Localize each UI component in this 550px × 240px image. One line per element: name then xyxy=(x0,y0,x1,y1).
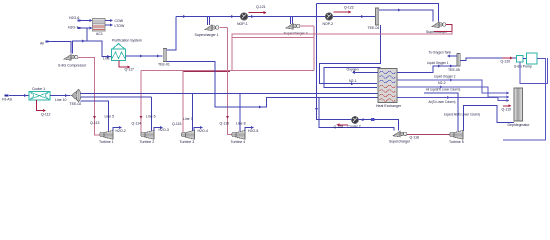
stream COW out of AC1 xyxy=(105,20,111,22)
svg-text:H2O-2: H2O-2 xyxy=(116,129,126,133)
energy wire Q-114 to Turbine 2 xyxy=(140,71,143,135)
node recycle marker xyxy=(371,118,374,121)
energy wire header turbines 2-3 to Supercharger 2 xyxy=(141,70,314,72)
svg-text:Expand Air(To Lower Column): Expand Air(To Lower Column) xyxy=(444,112,480,116)
heat exchanger Heat Exchanger xyxy=(378,69,397,103)
wire TEE-02 outlet 2 xyxy=(81,96,152,98)
wire AC1 drain joining compressor discharge xyxy=(86,29,88,42)
energy wire Q-121 from NOP-1 xyxy=(249,12,265,14)
svg-text:N2-1: N2-1 xyxy=(349,79,357,83)
svg-text:Turbine 4: Turbine 4 xyxy=(231,140,246,144)
svg-text:Turbine 1: Turbine 1 xyxy=(99,140,114,144)
svg-text:N2-2: N2-2 xyxy=(438,81,446,85)
svg-text:Q-113: Q-113 xyxy=(90,121,100,125)
svg-text:Turbine 3: Turbine 3 xyxy=(180,140,195,144)
svg-text:Q-122: Q-122 xyxy=(344,5,354,9)
svg-text:Q-118: Q-118 xyxy=(410,135,420,139)
wire second branch to Heat Exchanger xyxy=(324,68,381,88)
turbine Turbine 2 xyxy=(141,132,146,137)
svg-text:LTOW: LTOW xyxy=(115,24,125,28)
energy wire Q-117 from Purification System xyxy=(119,61,128,68)
wire TEE-01 top outlet riser to main header xyxy=(167,17,176,51)
energy wire Q-118 Supercharger 3 to Turbine 5 xyxy=(407,134,451,136)
svg-text:To Oxygen Tank: To Oxygen Tank xyxy=(429,50,452,54)
wire feed down to Supercharger 3 xyxy=(319,98,394,131)
svg-text:Dephlegmator: Dephlegmator xyxy=(508,123,531,127)
splitter TEE-04 xyxy=(376,8,379,25)
energy wire Q-128 arrow xyxy=(338,124,348,126)
wire TEE-04 top outlet to Supercharger top-right xyxy=(379,10,433,22)
svg-text:S-8S Pump: S-8S Pump xyxy=(514,64,532,68)
energy wire Q-122 from NOP-2 xyxy=(334,11,350,13)
wire Heat Exchanger outlet to lower column xyxy=(397,98,507,101)
svg-text:TEE-05: TEE-05 xyxy=(448,68,460,72)
svg-text:NOP-1: NOP-1 xyxy=(237,22,248,26)
wire pump recycle bracket xyxy=(520,58,548,84)
cooler Cooler 1 xyxy=(29,91,50,100)
energy wire riser to Supercharger 2 xyxy=(313,26,315,71)
compressor Supercharger (top right) xyxy=(432,22,439,28)
air-cooler exchanger AC1 xyxy=(93,19,106,32)
svg-text:TEE-04: TEE-04 xyxy=(368,26,380,30)
svg-text:H2O-6: H2O-6 xyxy=(69,16,79,20)
svg-text:COW: COW xyxy=(115,19,124,23)
wire drop to Supercharger 1 xyxy=(206,17,208,26)
energy wire Supercharger loop xyxy=(434,25,452,32)
wire Cooler 2 inlet from Supercharger 3 side xyxy=(358,120,398,131)
svg-text:Q-114: Q-114 xyxy=(132,122,142,126)
turbine Turbine 3 xyxy=(181,132,186,137)
svg-text:Air Liquid(To Lower Column): Air Liquid(To Lower Column) xyxy=(426,87,460,91)
stream Air Liquid To Lower Column xyxy=(424,93,458,131)
stream To Oxygen Tank xyxy=(450,55,458,57)
turbine Turbine 4 xyxy=(232,132,237,137)
stream Line 8 to Turbine 4 xyxy=(239,94,241,132)
wire main compression header xyxy=(176,16,376,18)
wire purification outlet to TEE-01 xyxy=(126,55,163,57)
compressor S-8G Compressor xyxy=(64,55,71,61)
stream Line 5 to Turbine 1 xyxy=(81,101,109,131)
stream H2O-4 out of Turbine 3 xyxy=(194,128,201,131)
svg-text:S-8G Compressor: S-8G Compressor xyxy=(58,63,87,67)
splitter TEE-02 cone xyxy=(72,90,79,102)
svg-text:H2O-3: H2O-3 xyxy=(159,128,169,132)
svg-text:Liquid Oxygen 1: Liquid Oxygen 1 xyxy=(427,61,449,65)
stream Line 6 to Turbine 2 xyxy=(151,97,153,131)
stream Line 7 to Turbine 3 xyxy=(192,94,194,132)
unit Purification System xyxy=(112,49,126,61)
svg-text:Line 6: Line 6 xyxy=(146,114,156,118)
pump S-8S Pump xyxy=(527,53,538,64)
svg-text:Supercharger 1: Supercharger 1 xyxy=(195,33,219,37)
energy wire loop rail lower xyxy=(232,37,314,39)
svg-text:Q-119: Q-119 xyxy=(502,107,512,111)
energy wire Q-120 xyxy=(502,57,511,59)
wire TEE-02 outlet 1 long header to Heat Exchanger xyxy=(81,93,379,95)
svg-text:Line 5: Line 5 xyxy=(105,114,115,118)
energy wire Q-119 to Dephlegmator xyxy=(503,105,509,107)
stream H2O-5 out of Turbine 4 xyxy=(245,128,252,131)
stream Liquid Oxygen 2 path xyxy=(398,80,508,93)
compressor Supercharger 2 xyxy=(286,24,293,30)
energy wire Supercharger 1 shaft xyxy=(220,27,228,29)
energy wire Q-113 from S-8G Compressor to Turbine 1 xyxy=(78,57,101,135)
stream H2O-7 into AC1 xyxy=(79,27,93,29)
svg-text:Line 8: Line 8 xyxy=(236,121,246,125)
svg-text:Liquid Oxygen 2: Liquid Oxygen 2 xyxy=(434,74,456,78)
cooler Cooler 2 xyxy=(352,117,359,124)
wire drop to Supercharger 2 xyxy=(289,17,291,25)
stream H2O-3 out of Turbine 2 xyxy=(154,128,161,131)
turbine Turbine 5 xyxy=(450,132,455,137)
stream N2-2 path xyxy=(397,87,507,97)
wire Cooler 2 outlet up to top bypass header xyxy=(317,4,353,120)
stream Line 10 to TEE-02 xyxy=(50,95,71,97)
energy wire Q-116 Supercharger 1 to Turbine 4 xyxy=(228,28,233,135)
energy wire dark red header xyxy=(183,70,230,72)
svg-text:H2O-7: H2O-7 xyxy=(68,26,78,30)
wire TEE-01 bottom outlet long path to Heat Exchanger xyxy=(167,62,378,108)
svg-text:H2O-4: H2O-4 xyxy=(198,129,208,133)
svg-text:Fd-AS: Fd-AS xyxy=(2,97,13,101)
svg-text:Supercharger: Supercharger xyxy=(389,140,411,144)
svg-text:Cooler 2: Cooler 2 xyxy=(348,124,361,128)
column Dephlegmator xyxy=(514,88,523,121)
svg-text:Air(To Lower Column): Air(To Lower Column) xyxy=(429,100,456,104)
svg-text:Purification System: Purification System xyxy=(112,39,142,43)
svg-text:Cooler 1: Cooler 1 xyxy=(32,87,45,91)
wire S-8S Pump outlet down right side xyxy=(503,59,546,141)
svg-text:Turbine 5: Turbine 5 xyxy=(449,140,464,144)
svg-text:TEE-02: TEE-02 xyxy=(70,102,82,106)
stream Fd-AS inlet xyxy=(9,95,29,97)
energy wire Q-115 to Turbine 3 xyxy=(182,71,184,133)
compressor Supercharger 1 xyxy=(205,25,212,31)
stream LTOW out of AC1 xyxy=(105,24,111,26)
energy wire Q-112 from Cooler 1 xyxy=(37,100,44,111)
valve S-8S Pump inlet block xyxy=(517,56,524,63)
svg-text:Turbine 2: Turbine 2 xyxy=(140,140,155,144)
turbine Turbine 1 xyxy=(100,132,105,137)
svg-text:Line 7: Line 7 xyxy=(183,117,193,121)
svg-text:H2O-5: H2O-5 xyxy=(248,129,258,133)
svg-text:Q-121: Q-121 xyxy=(256,5,266,9)
stream Expand Air To Lower Column xyxy=(464,106,515,132)
splitter TEE-01 xyxy=(163,49,166,62)
svg-text:Line 10: Line 10 xyxy=(55,98,67,102)
stream Line 9 compressor discharge to purification xyxy=(73,41,112,57)
svg-text:Q-112: Q-112 xyxy=(41,113,51,117)
svg-text:Supercharger 2: Supercharger 2 xyxy=(284,31,308,35)
stream Oxygen out of Heat Exchanger xyxy=(355,71,379,73)
svg-text:Q-128: Q-128 xyxy=(334,125,344,129)
energy wire Supercharger 2 shaft to riser xyxy=(300,25,314,27)
wire connector xyxy=(523,58,527,60)
stream H2O-6 into AC1 xyxy=(79,20,93,22)
splitter TEE-05 xyxy=(457,54,460,67)
wire TEE-04 bottom outlet to Heat Exchanger N2-1 port xyxy=(320,25,381,84)
wire Heat Exchanger to Liquid Oxygen 1 riser xyxy=(397,66,457,72)
svg-text:Q-117: Q-117 xyxy=(125,68,135,72)
wire bypass top header to Supercharger top-right xyxy=(317,4,439,22)
stream H2O-2 out of Turbine 1 xyxy=(113,128,120,131)
svg-text:Q-120: Q-120 xyxy=(501,60,511,64)
svg-text:Q-115: Q-115 xyxy=(172,122,182,126)
pump NOP-1 xyxy=(240,13,247,20)
svg-text:Q-116: Q-116 xyxy=(220,122,230,126)
energy wire loop rail upper xyxy=(232,32,452,71)
compressor Supercharger 3 xyxy=(393,131,400,137)
pump NOP-2 xyxy=(325,13,332,20)
svg-text:TEE-01: TEE-01 xyxy=(158,63,170,67)
svg-text:NOP-2: NOP-2 xyxy=(323,22,334,26)
svg-text:Heat Exchanger: Heat Exchanger xyxy=(376,104,402,108)
svg-text:Oxygen: Oxygen xyxy=(347,68,359,72)
svg-text:AC1: AC1 xyxy=(96,32,103,36)
wire TEE-05 to S-8S Pump xyxy=(460,58,516,61)
